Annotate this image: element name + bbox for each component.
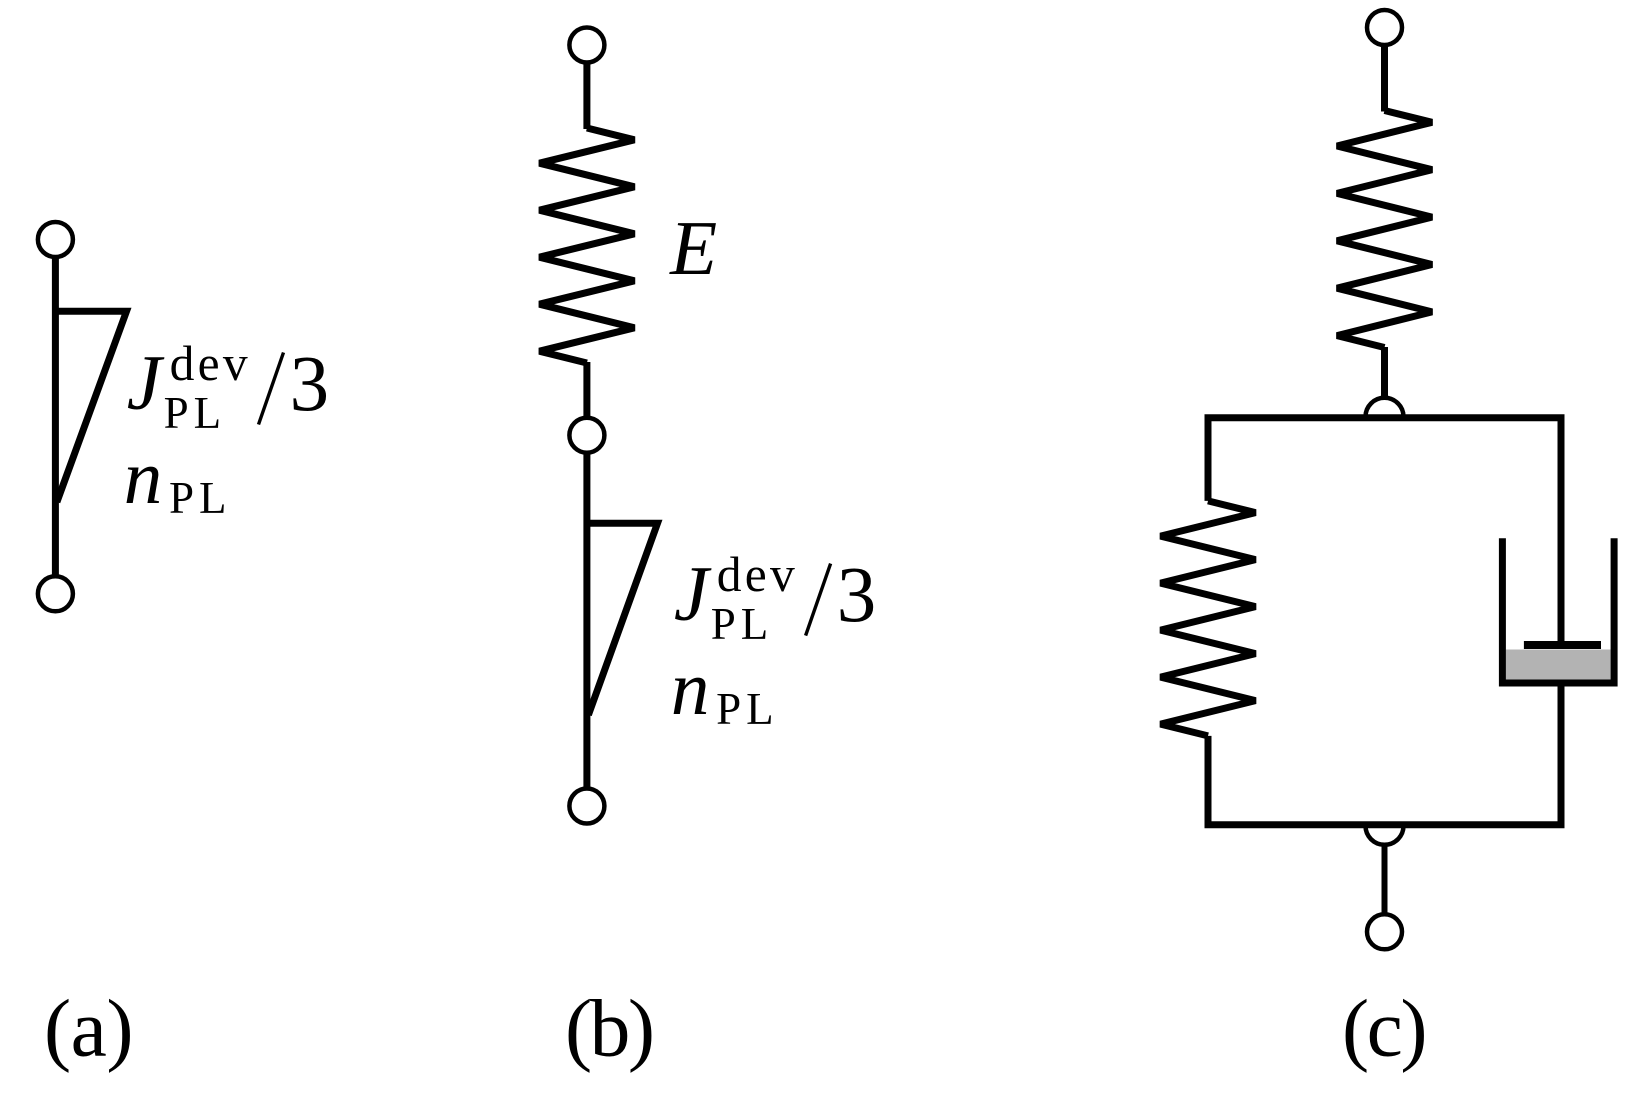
terminal node (a) top — [38, 222, 73, 257]
terminal node (c) top — [1367, 10, 1402, 45]
wire (c) bottom link — [1382, 844, 1388, 913]
svg-text:dev: dev — [717, 547, 798, 602]
figure (a): nonlinear dashpot element — [38, 222, 127, 611]
terminal node (b) top — [569, 28, 604, 63]
wire (b) middle — [583, 362, 590, 417]
svg-text:(c): (c) — [1342, 983, 1425, 1074]
dashpot piston plate — [1524, 641, 1601, 649]
parallel box frame — [1208, 418, 1561, 825]
dashpot cup — [1502, 538, 1614, 683]
dashpot fluid — [1506, 650, 1611, 682]
nonlinear dashpot (a) triangle — [55, 311, 126, 502]
svg-text:PL: PL — [716, 684, 779, 734]
node (b) middle — [569, 418, 604, 453]
terminal node (a) bottom — [38, 576, 73, 611]
value label J_PL^dev/3 (a) — [127, 336, 329, 438]
node (c) box bottom (half circle) — [1366, 826, 1404, 845]
svg-text:3: 3 — [290, 341, 330, 428]
spring E — [539, 128, 634, 363]
wire (b) lower — [583, 453, 590, 788]
svg-text:E: E — [669, 205, 717, 291]
wire (c) spring to box — [1381, 347, 1388, 400]
svg-text:3: 3 — [837, 552, 877, 639]
wire (a) vertical — [52, 257, 59, 576]
wire (c) top — [1381, 45, 1388, 112]
spring (c) parallel — [1161, 501, 1256, 736]
figure (b): spring in series with nonlinear dashpot — [539, 28, 657, 824]
svg-text:PL: PL — [164, 388, 227, 438]
svg-text:(b): (b) — [565, 983, 653, 1074]
value label n_PL (b) — [671, 645, 779, 734]
figure (c): standard linear solid (spring + Kelvin-Voigt) — [1161, 10, 1615, 949]
value label n_PL (a) — [124, 434, 232, 523]
svg-text:n: n — [671, 645, 710, 731]
svg-text:PL: PL — [711, 599, 774, 649]
terminal node (c) bottom — [1367, 914, 1402, 949]
terminal node (b) bottom — [569, 789, 604, 824]
svg-text:(a): (a) — [44, 983, 133, 1074]
value label J_PL^dev/3 (b) — [674, 547, 876, 649]
svg-text:n: n — [124, 434, 163, 520]
wire (b) top — [583, 63, 590, 129]
node (c) box top (half circle) — [1366, 398, 1404, 417]
svg-text:dev: dev — [170, 336, 251, 391]
spring (c) series — [1337, 111, 1432, 348]
svg-text:PL: PL — [169, 473, 232, 523]
svg-text:J: J — [674, 550, 712, 637]
svg-text:J: J — [127, 339, 165, 426]
nonlinear dashpot (b) triangle — [587, 523, 658, 715]
